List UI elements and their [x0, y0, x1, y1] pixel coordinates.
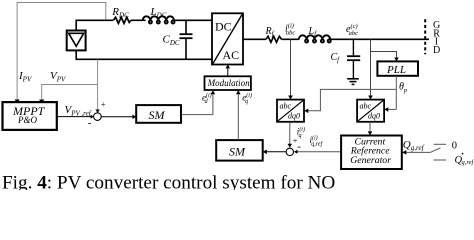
- wire L_DC to converter: [174, 19, 212, 21]
- ground: [347, 78, 359, 80]
- grid dashed line: [424, 19, 426, 54]
- wire S1 to SM1: [101, 116, 134, 118]
- wire i_abc tap down: [290, 39, 292, 97]
- svg-text:g,ref: g,ref: [462, 159, 474, 166]
- inductor L_f: [299, 35, 331, 39]
- svg-text:dq0: dq0: [368, 111, 380, 120]
- wire AC line: [243, 38, 266, 40]
- wire S2 to SM2: [266, 151, 286, 153]
- svg-text:AC: AC: [223, 48, 240, 62]
- svg-text:Fig. 4: PV converter control s: Fig. 4: PV converter control system for …: [2, 173, 335, 191]
- wire theta_p from PLL: [395, 76, 397, 110]
- wire DC bus bottom: [76, 50, 212, 59]
- svg-text:+: +: [101, 99, 106, 109]
- svg-text:-: -: [297, 140, 301, 152]
- resistor R_f: [266, 36, 282, 42]
- controller SM1: [136, 105, 181, 123]
- CRG block: [341, 136, 402, 170]
- svg-text:P&O: P&O: [17, 115, 37, 125]
- converter U1 DC/AC: [212, 13, 243, 64]
- switch Q_g,ref wire into CRG: [406, 151, 431, 153]
- wire e_d SM1 to modulation: [181, 94, 213, 115]
- wire I_PV sense loop: [17, 3, 106, 102]
- svg-text:i(i)abc: i(i)abc: [285, 23, 295, 37]
- svg-text:dq0: dq0: [288, 111, 300, 120]
- switch contact Q*_g,ref: [434, 159, 447, 161]
- wire i_q output to summing junction: [289, 122, 291, 145]
- PV panel: [67, 31, 86, 51]
- svg-text:PLL: PLL: [386, 64, 406, 76]
- MPPT block: [3, 102, 57, 130]
- switch contact 0: [434, 143, 447, 145]
- svg-text:DC: DC: [215, 20, 232, 34]
- svg-text:0: 0: [452, 141, 457, 152]
- summing junction S2: [286, 148, 293, 155]
- svg-text:abc: abc: [280, 102, 292, 111]
- wire V_PV branch to MPPT: [42, 85, 98, 100]
- wire voltage dq block to CRG: [369, 122, 371, 132]
- svg-text:Modulation: Modulation: [207, 78, 250, 88]
- wire e_abc tap down: [370, 39, 372, 97]
- wire PLL input branch: [371, 52, 397, 59]
- svg-text:e(c)abc: e(c)abc: [346, 23, 358, 37]
- wire panel top lead: [76, 20, 113, 30]
- svg-text:-: -: [88, 117, 92, 129]
- svg-text:SM: SM: [229, 145, 246, 159]
- svg-text:D: D: [433, 45, 440, 56]
- resistor R_DC: [113, 17, 130, 23]
- transform block abc/dq0 current: [277, 100, 304, 122]
- wire between R_DC and L_DC: [131, 19, 146, 21]
- summing junction S1: [94, 113, 102, 121]
- capacitor C_f: [352, 39, 354, 56]
- wire V_PV,ref MPPT to S1: [57, 116, 91, 118]
- wire theta_p to voltage dq block: [388, 108, 397, 110]
- wire modulation to converter: [227, 68, 229, 77]
- svg-text:Generator: Generator: [350, 155, 391, 166]
- wire e_q SM2 to modulation: [237, 93, 239, 140]
- svg-text:abc: abc: [360, 102, 372, 111]
- wire i_q,ref from CRG to S2: [297, 151, 342, 153]
- svg-text:SM: SM: [149, 108, 166, 122]
- wire theta_p branch left: [308, 89, 397, 110]
- PLL block: [377, 61, 418, 75]
- controller SM2: [216, 140, 263, 161]
- modulation block: [205, 76, 251, 90]
- switch lever: [430, 148, 440, 153]
- wire V_PV measurement: [97, 59, 99, 110]
- inductor L_DC: [143, 16, 175, 20]
- capacitor C_DC: [185, 20, 187, 34]
- transform block abc/dq0 voltage: [357, 100, 384, 122]
